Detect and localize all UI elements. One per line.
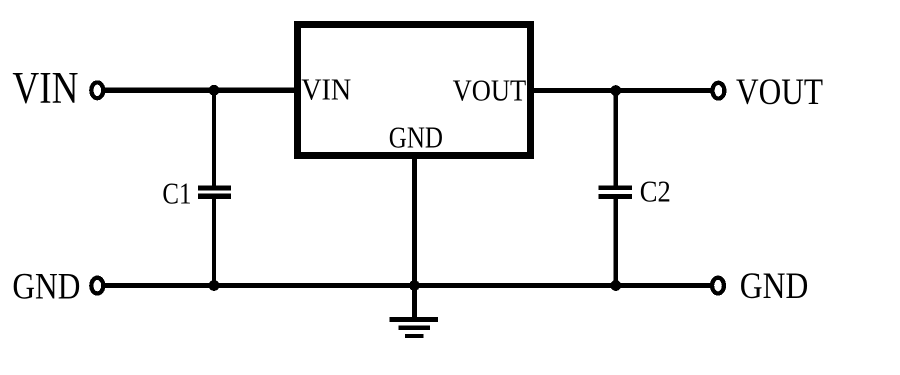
svg-text:VOUT: VOUT [453, 72, 527, 107]
label VOUT (right terminal) [736, 72, 823, 113]
junction dot GND pin/GND rail [409, 280, 420, 291]
wire C2 upper segment [614, 90, 618, 187]
wire GND bottom rail [104, 283, 711, 288]
terminal GND right (open circle) [712, 278, 724, 294]
junction dot VIN/C1 [209, 85, 220, 96]
terminal VOUT (open circle) [712, 83, 724, 99]
wire C1 lower segment [212, 198, 216, 286]
pin label GND (U1) [389, 120, 443, 155]
label GND (right terminal) [740, 266, 809, 307]
label VIN (left terminal) [12, 63, 78, 113]
capacitor C2 plates [599, 186, 633, 200]
value label C1 [162, 176, 191, 211]
junction dot C1/GND rail [209, 280, 220, 291]
label GND (left terminal) [12, 266, 80, 307]
svg-text:VIN: VIN [301, 72, 351, 107]
svg-text:GND: GND [389, 120, 443, 155]
svg-text:VOUT: VOUT [736, 72, 823, 113]
svg-text:C2: C2 [640, 173, 671, 208]
svg-text:GND: GND [740, 266, 809, 307]
wire C2 lower segment [614, 198, 618, 286]
terminal GND left (open circle) [91, 278, 103, 294]
ground symbol [390, 317, 438, 338]
junction dot VOUT/C2 [610, 85, 621, 96]
svg-text:C1: C1 [162, 176, 191, 211]
wire VOUT rail (box pin VOUT to terminal) [531, 88, 711, 93]
regulator U1 box [298, 25, 531, 156]
value label C2 [640, 173, 671, 208]
wire C1 upper segment [212, 90, 216, 187]
pin label VIN (U1) [301, 72, 351, 107]
wire GND pin of U1 down to ground symbol [412, 153, 417, 318]
svg-text:GND: GND [12, 266, 80, 307]
capacitor C1 plates [198, 186, 231, 199]
pin label VOUT (U1) [453, 72, 527, 107]
wire VIN rail (terminal to box pin VIN) [104, 88, 298, 93]
junction dot C2/GND rail [610, 280, 621, 291]
terminal VIN (open circle) [91, 82, 103, 98]
svg-text:VIN: VIN [12, 63, 78, 113]
